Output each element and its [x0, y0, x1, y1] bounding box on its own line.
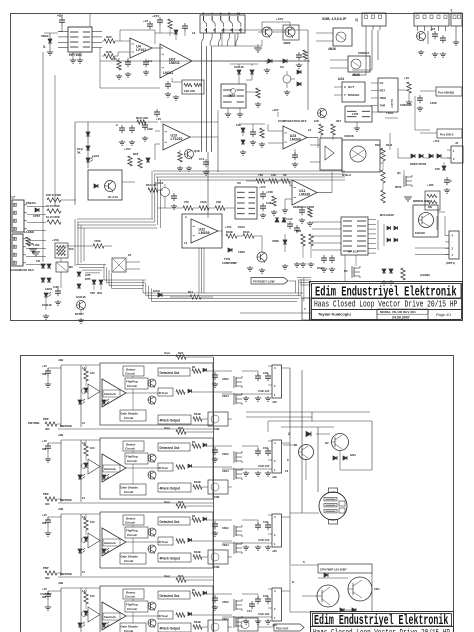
- svg-text:J10: J10: [272, 475, 277, 479]
- svg-text:+15V: +15V: [124, 147, 131, 151]
- svg-text:Circuit: Circuit: [127, 459, 137, 463]
- svg-text:4N26: 4N26: [328, 47, 336, 51]
- svg-text:Circuit: Circuit: [125, 595, 135, 599]
- svg-text:Q5: Q5: [397, 171, 401, 175]
- svg-text:100K: 100K: [430, 101, 438, 105]
- svg-text:J4: J4: [455, 141, 459, 145]
- svg-text:R23: R23: [296, 229, 301, 233]
- svg-text:+15: +15: [430, 27, 435, 31]
- svg-text:24.09.2007: 24.09.2007: [392, 316, 410, 320]
- svg-text:R2A: R2A: [178, 500, 183, 504]
- svg-text:PRESA: PRESA: [26, 201, 36, 205]
- svg-text:LT1220: LT1220: [171, 137, 183, 141]
- svg-text:47uF-35V: 47uF-35V: [40, 592, 52, 596]
- svg-text:Edim Endustriyel Elektronik: Edim Endustriyel Elektronik: [315, 284, 457, 301]
- svg-text:KL10 500K: KL10 500K: [46, 204, 60, 208]
- svg-text:C: C: [116, 123, 118, 127]
- svg-text:R13A: R13A: [243, 230, 250, 234]
- svg-text:15M: 15M: [214, 427, 220, 431]
- svg-text:COMPARATOR OFF: COMPARATOR OFF: [278, 119, 307, 123]
- svg-text:CMOS3: CMOS3: [358, 51, 369, 55]
- svg-text:2N4: 2N4: [97, 291, 102, 295]
- svg-text:Vout: Vout: [164, 500, 170, 504]
- svg-text:UTout: UTout: [159, 391, 168, 395]
- svg-text:VREF: VREF: [41, 34, 49, 38]
- svg-text:LM211: LM211: [169, 61, 180, 65]
- svg-text:J10: J10: [272, 549, 277, 553]
- svg-text:R33: R33: [111, 57, 117, 61]
- svg-text:R104 34K: R104 34K: [136, 116, 148, 120]
- svg-text:LF411: LF411: [136, 48, 146, 52]
- svg-text:Taylan Kualcoglu: Taylan Kualcoglu: [318, 312, 351, 317]
- svg-text:MCCA4E1P: MCCA4E1P: [380, 213, 394, 217]
- svg-text:+15K: +15K: [427, 183, 434, 187]
- svg-text:D: D: [292, 580, 294, 584]
- svg-text:C33: C33: [263, 594, 268, 598]
- svg-text:4Pack Output: 4Pack Output: [160, 627, 181, 631]
- svg-text:TRIG: TRIG: [380, 96, 388, 100]
- svg-text:CR09: CR09: [238, 250, 245, 254]
- svg-text:K7H2: K7H2: [153, 289, 160, 293]
- svg-text:UTout: UTout: [159, 540, 168, 544]
- svg-text:10: 10: [237, 12, 241, 16]
- svg-text:+15: +15: [42, 364, 47, 368]
- svg-text:Gate Shutdn: Gate Shutdn: [121, 412, 139, 416]
- svg-text:19: 19: [192, 31, 196, 35]
- svg-text:+15: +15: [42, 439, 47, 443]
- svg-text:R12B: R12B: [194, 620, 201, 624]
- svg-text:PBP: PBP: [43, 417, 49, 421]
- svg-text:C33: C33: [263, 520, 268, 524]
- svg-text:Gate Shutdn: Gate Shutdn: [121, 625, 139, 629]
- svg-text:300: 300: [45, 502, 50, 506]
- svg-text:1N4148: 1N4148: [42, 303, 52, 307]
- svg-text:I1N: I1N: [42, 521, 46, 525]
- svg-text:-: -: [452, 241, 453, 244]
- svg-text:0.68: 0.68: [266, 201, 272, 205]
- svg-text:R18B: R18B: [226, 230, 233, 234]
- svg-text:Page 4/1: Page 4/1: [436, 313, 451, 317]
- svg-text:17: 17: [11, 196, 15, 200]
- svg-text:+5V: +5V: [57, 14, 64, 18]
- svg-text:0.1uF: 0.1uF: [286, 217, 293, 221]
- svg-text:(AGND): (AGND): [420, 273, 430, 277]
- svg-text:Circuit: Circuit: [125, 447, 135, 451]
- svg-text:5: 5: [303, 560, 305, 564]
- svg-text:12: 12: [184, 241, 188, 245]
- svg-text:15M: 15M: [214, 565, 220, 569]
- svg-text:750: 750: [184, 200, 189, 204]
- svg-text:R12B: R12B: [194, 480, 201, 484]
- svg-text:BRMFB OUT: BRMFB OUT: [413, 199, 430, 203]
- svg-text:Interlock: Interlock: [104, 467, 116, 471]
- svg-text:4N26: 4N26: [352, 73, 360, 77]
- svg-text:R12: R12: [188, 290, 193, 294]
- svg-text:FlipFlop: FlipFlop: [126, 380, 138, 384]
- svg-text:K10A: K10A: [238, 225, 245, 229]
- svg-text:Detected Out: Detected Out: [160, 520, 181, 524]
- svg-text:Circuit: Circuit: [127, 607, 137, 611]
- svg-text:U6: U6: [237, 181, 241, 185]
- svg-text:H11L2: H11L2: [342, 173, 351, 177]
- svg-text:Gate Shutdn: Gate Shutdn: [121, 486, 139, 490]
- svg-text:FlipFlop: FlipFlop: [126, 603, 138, 607]
- svg-text:C14: C14: [199, 157, 205, 161]
- svg-text:OUT: OUT: [348, 85, 354, 89]
- svg-text:UR14: UR14: [222, 617, 229, 621]
- svg-text:I1N: I1N: [42, 372, 46, 376]
- svg-text:MBTRNL: MBTRNL: [60, 498, 73, 502]
- svg-text:5.: 5.: [43, 45, 46, 49]
- svg-text:47uF-10V: 47uF-10V: [258, 389, 270, 393]
- svg-text:UR20: UR20: [272, 239, 279, 243]
- svg-text:+15: +15: [42, 587, 47, 591]
- svg-text:R2A: R2A: [178, 351, 183, 355]
- svg-text:K1: K1: [128, 253, 132, 257]
- svg-text:Vout: Vout: [164, 574, 170, 578]
- svg-text:R12B: R12B: [194, 550, 201, 554]
- svg-text:6: 6: [287, 458, 289, 462]
- svg-text:H1 A1A: H1 A1A: [108, 195, 118, 199]
- svg-text:MC: MC: [69, 265, 73, 269]
- svg-text:47uF-10V: 47uF-10V: [258, 464, 270, 468]
- svg-text:Gate Shutdn: Gate Shutdn: [121, 555, 139, 559]
- svg-text:R1B: R1B: [375, 143, 380, 147]
- svg-text:2: 2: [451, 9, 453, 13]
- svg-text:+15V: +15V: [152, 14, 160, 18]
- svg-text:100: 100: [90, 446, 95, 450]
- svg-text:J1B: J1B: [58, 358, 63, 362]
- svg-text:PSU OUT: PSU OUT: [276, 627, 289, 631]
- svg-text:LM339: LM339: [290, 138, 301, 142]
- svg-text:12: 12: [308, 128, 312, 132]
- svg-text:C1: C1: [294, 443, 298, 447]
- svg-text:100: 100: [90, 594, 95, 598]
- svg-text:4N26: 4N26: [283, 41, 291, 45]
- svg-text:Interlock: Interlock: [104, 615, 116, 619]
- svg-text:4Pack Output: 4Pack Output: [160, 419, 181, 423]
- svg-text:20uF: 20uF: [317, 266, 323, 270]
- svg-text:UTout: UTout: [159, 466, 168, 470]
- svg-text:Detected Out: Detected Out: [160, 446, 181, 450]
- svg-text:47uF-10V: 47uF-10V: [258, 538, 270, 542]
- svg-text:LM339: LM339: [199, 231, 210, 235]
- svg-text:PBTRNL: PBTRNL: [28, 421, 40, 425]
- svg-text:MBTRNL: MBTRNL: [60, 424, 73, 428]
- svg-text:COMP/RMP: COMP/RMP: [222, 261, 237, 265]
- svg-text:4K7: 4K7: [336, 119, 341, 123]
- svg-text:4Pack Output: 4Pack Output: [160, 557, 181, 561]
- svg-text:47uF-10V: 47uF-10V: [258, 612, 270, 616]
- svg-text:R/C: R/C: [69, 247, 74, 251]
- svg-text:U9OC8: U9OC8: [344, 134, 354, 138]
- svg-text:Haas Closed Loop Vector Drive: Haas Closed Loop Vector Drive 20/15 HP: [314, 301, 458, 310]
- svg-text:15M: 15M: [214, 495, 220, 499]
- svg-text:Circuit: Circuit: [127, 384, 137, 388]
- svg-text:J1B: J1B: [58, 433, 63, 437]
- svg-text:R28: R28: [106, 50, 112, 54]
- svg-text:R1: R1: [192, 440, 196, 444]
- svg-text:KOLO 500K: KOLO 500K: [46, 193, 61, 197]
- svg-text:Interlock: Interlock: [104, 392, 116, 396]
- svg-text:UR14: UR14: [222, 469, 229, 473]
- svg-text:13: 13: [285, 469, 289, 473]
- svg-text:MODEL VD-100 REV 2K1: MODEL VD-100 REV 2K1: [380, 310, 416, 314]
- svg-text:I1N: I1N: [42, 447, 46, 451]
- svg-text:CR1: CR1: [374, 587, 380, 591]
- svg-text:Circuit: Circuit: [125, 521, 135, 525]
- svg-text:2|: 2|: [355, 18, 358, 22]
- svg-text:LM211: LM211: [163, 71, 173, 75]
- svg-text:R2A: R2A: [178, 574, 183, 578]
- svg-text:1N4148: 1N4148: [76, 295, 86, 299]
- svg-text:J1B: J1B: [58, 581, 63, 585]
- svg-text:+15: +15: [143, 19, 148, 23]
- svg-text:Interlock: Interlock: [104, 541, 116, 545]
- svg-text:DEMODULATOR: DEMODULATOR: [293, 205, 314, 209]
- svg-text:C33: C33: [263, 446, 268, 450]
- svg-text:FAN120: FAN120: [415, 231, 425, 235]
- svg-text:+15V: +15V: [433, 139, 440, 143]
- svg-text:CV: CV: [380, 81, 384, 85]
- svg-text:R1: R1: [192, 588, 196, 592]
- svg-text:Circuit: Circuit: [127, 533, 137, 537]
- svg-text:Circuit: Circuit: [124, 559, 133, 563]
- svg-text:CPU765P-124 IGBT: CPU765P-124 IGBT: [320, 568, 347, 572]
- svg-text:C9: C9: [280, 65, 284, 69]
- svg-text:UR14: UR14: [222, 543, 229, 547]
- svg-text:UR12: UR12: [222, 600, 229, 604]
- svg-text:7SP: 7SP: [90, 291, 95, 295]
- svg-text:Q18: Q18: [194, 149, 200, 153]
- svg-text:UR12: UR12: [222, 452, 229, 456]
- svg-text:J10: J10: [272, 400, 277, 404]
- svg-text:FlipFlop: FlipFlop: [126, 529, 138, 533]
- svg-text:+15K: +15K: [33, 243, 40, 247]
- svg-text:TSOL: TSOL: [386, 111, 394, 115]
- svg-text:T150: T150: [224, 257, 231, 261]
- svg-text:C33: C33: [263, 371, 268, 375]
- svg-text:+15: +15: [42, 513, 47, 517]
- svg-text:PS RESET LOW: PS RESET LOW: [253, 280, 275, 284]
- svg-text:10K 10K: 10K 10K: [184, 89, 196, 93]
- svg-text:THR: THR: [380, 104, 386, 108]
- svg-text:R104 3K: R104 3K: [146, 183, 157, 187]
- svg-text:CPS7: CPS7: [33, 214, 41, 218]
- svg-text:LM339: LM339: [299, 193, 310, 197]
- svg-text:+15V: +15V: [259, 185, 266, 189]
- svg-text:7555: 7555: [228, 94, 236, 98]
- svg-text:R120: R120: [386, 143, 393, 147]
- svg-text:470K: 470K: [94, 239, 102, 243]
- svg-text:FlipFlop: FlipFlop: [126, 455, 138, 459]
- svg-text:T: T: [304, 307, 306, 311]
- svg-text:PBP: PBP: [43, 492, 49, 496]
- svg-text:300: 300: [45, 576, 50, 580]
- svg-text:R22: R22: [106, 35, 112, 39]
- svg-text:D2: D2: [325, 441, 329, 445]
- svg-text:Circuit: Circuit: [124, 490, 133, 494]
- svg-text:1N2/OTP: 1N2/OTP: [400, 103, 412, 107]
- svg-text:Detected Out: Detected Out: [160, 594, 181, 598]
- svg-text:LED3: LED3: [45, 287, 52, 291]
- svg-text:RN: RN: [428, 205, 432, 209]
- svg-text:+C66: +C66: [266, 190, 273, 194]
- svg-text:R12B: R12B: [194, 412, 201, 416]
- svg-text:2: 2: [288, 432, 290, 436]
- svg-text:UR12: UR12: [222, 526, 229, 530]
- svg-text:DISCHG: DISCHG: [348, 93, 360, 97]
- svg-text:IC8B, 4,5,6,9,1P: IC8B, 4,5,6,9,1P: [322, 17, 347, 21]
- svg-text:U24: U24: [338, 77, 344, 81]
- svg-text:+15K: +15K: [27, 242, 35, 246]
- svg-text:100: 100: [90, 520, 95, 524]
- svg-text:D5: D5: [344, 269, 348, 273]
- svg-text:B18: B18: [133, 152, 139, 156]
- svg-text:C: C: [450, 179, 452, 183]
- svg-text:100: 100: [90, 371, 95, 375]
- svg-text:CR: CR: [36, 259, 40, 263]
- svg-text:A7B: A7B: [85, 273, 90, 277]
- svg-text:Vout: Vout: [164, 426, 170, 430]
- svg-text:C4M: C4M: [53, 285, 59, 289]
- svg-text:Pot-10K(B): Pot-10K(B): [438, 91, 454, 95]
- svg-text:1N5: 1N5: [435, 167, 440, 171]
- svg-text:Detected Out: Detected Out: [160, 371, 181, 375]
- svg-text:4Pack Output: 4Pack Output: [160, 487, 181, 491]
- svg-text:C41: C41: [247, 609, 252, 613]
- svg-text:Circuit: Circuit: [124, 416, 133, 420]
- svg-text:150K: 150K: [200, 200, 208, 204]
- svg-text:R1: R1: [192, 365, 196, 369]
- svg-text:DRSP OPON: DRSP OPON: [410, 162, 426, 166]
- svg-text:KL10 500K: KL10 500K: [46, 215, 60, 219]
- svg-text:+15K: +15K: [52, 238, 60, 242]
- svg-text:GN1: GN1: [350, 453, 356, 457]
- svg-text:R1: R1: [192, 514, 196, 518]
- svg-text:Vout: Vout: [164, 351, 170, 355]
- svg-text:+AGND: +AGND: [24, 230, 34, 234]
- svg-text:HP 3CA: HP 3CA: [348, 250, 358, 254]
- svg-text:HASH/MASH REV: HASH/MASH REV: [10, 268, 34, 272]
- svg-text:C9B: C9B: [147, 127, 153, 131]
- svg-text:6P25: 6P25: [395, 185, 402, 189]
- svg-text:10K: 10K: [314, 119, 319, 123]
- svg-text:R7B: R7B: [85, 277, 90, 281]
- svg-text:(OPT1): (OPT1): [446, 261, 455, 265]
- svg-text:Circuit: Circuit: [125, 372, 135, 376]
- svg-text:LM555: LM555: [390, 98, 394, 108]
- svg-text:Pot 10K-2: Pot 10K-2: [440, 133, 454, 137]
- svg-text:R2A: R2A: [178, 426, 183, 430]
- svg-text:PBP: PBP: [43, 566, 49, 570]
- svg-text:+15V: +15V: [276, 17, 284, 21]
- svg-text:+15: +15: [404, 76, 409, 80]
- svg-text:UR14: UR14: [222, 394, 229, 398]
- svg-text:+15: +15: [156, 117, 161, 121]
- svg-text:LED1: LED1: [92, 154, 100, 158]
- svg-text:LPO: LPO: [352, 112, 359, 116]
- svg-text:J1B: J1B: [58, 507, 63, 511]
- svg-text:RST: RST: [380, 89, 386, 93]
- svg-text:UR12: UR12: [222, 377, 229, 381]
- svg-text:BC5B7: BC5B7: [75, 312, 84, 316]
- svg-text:+15V: +15V: [225, 225, 232, 229]
- svg-text:+15V: +15V: [272, 108, 279, 112]
- svg-text:300: 300: [45, 427, 50, 431]
- svg-text:MBTRNL: MBTRNL: [60, 572, 73, 576]
- svg-text:UTout: UTout: [159, 614, 168, 618]
